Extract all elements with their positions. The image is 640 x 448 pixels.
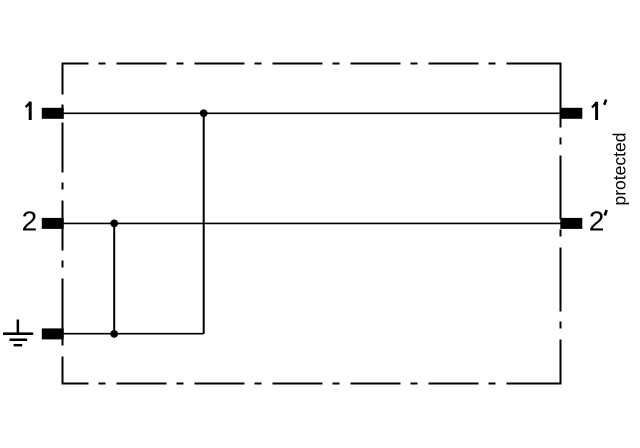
terminal pad ground (left) [42,328,64,339]
wire line 1 (terminal 1 to terminal 1') [63,112,561,114]
ground symbol middle bar [10,339,28,342]
terminal pad 2' (right) [560,218,582,229]
protected-zone boundary corner bottom-right [549,372,561,384]
svg-text:2: 2 [22,206,38,237]
svg-text:protected: protected [610,133,630,206]
junction node on ground bus [110,330,118,338]
terminal pad 2 (left) [42,218,64,229]
label terminal 1 [26,102,31,120]
wire line 2 (terminal 2 to terminal 2') [63,222,561,224]
protected-zone boundary (dash-dot enclosure) left edge [62,64,64,384]
terminal pad 1' (right) [560,108,582,119]
ground symbol bottom bar [14,344,23,346]
protected-zone boundary corner bottom-left [63,372,76,384]
ground symbol top bar [3,332,33,335]
protected-zone boundary corner top-left [63,64,76,76]
terminal pad 1 (left) [42,108,64,119]
wire vertical drop from line 1 to ground bus [203,113,205,333]
ground symbol stem [17,320,20,334]
junction node on line 2 [110,220,118,228]
protected-zone boundary (dash-dot enclosure) right edge [560,64,562,384]
protected-zone boundary (dash-dot enclosure) bottom edge [63,383,561,385]
label terminal 1' [592,100,606,120]
label terminal 2' [589,205,607,236]
protected-zone boundary corner top-right [549,64,561,76]
svg-text:2: 2 [589,205,605,236]
wire ground bus (ground terminal to vertical drop) [63,333,204,335]
protected-zone boundary (dash-dot enclosure) top edge [63,63,561,65]
junction node on line 1 [200,109,208,117]
wire vertical drop from line 2 to ground bus [113,223,115,334]
